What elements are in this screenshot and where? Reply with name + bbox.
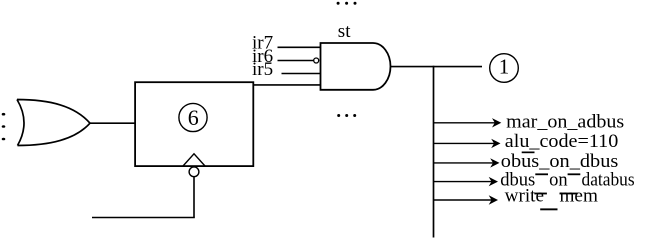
wire and-gate output to node 1 [391,66,483,68]
clock inverting bubble [189,167,199,177]
wire ir6 to inversion bubble [278,60,314,62]
svg-text:write: write [505,185,544,206]
svg-text:ir5: ir5 [252,59,273,80]
ellipsis below and-gate [337,114,356,117]
overbar on obus label [522,152,535,154]
wire or-gate output to register box [90,122,135,124]
svg-text:alu_code=110: alu_code=110 [505,131,619,152]
overbars on write_mem label [534,193,547,195]
arrow write_mem [434,199,493,201]
bus vertical wire [433,66,435,238]
register box 6 [135,82,253,166]
high separator bars of dbus label [535,173,548,175]
wire ir7 to and-gate [278,46,321,48]
arrow dbus_on_databus [434,181,493,183]
and-gate [321,43,391,90]
arrow obus_on_dbus [434,162,494,164]
svg-text:mar_on_adbus: mar_on_adbus [506,111,624,132]
svg-text:mem: mem [560,185,599,206]
wire ir5 to and-gate [282,73,321,75]
svg-text:6: 6 [188,105,199,130]
svg-text:st: st [338,21,351,42]
node 1 circle [490,54,519,83]
or-gate [17,100,90,146]
wire register box to and-gate input 4 [253,84,320,86]
inversion bubble ir6 [314,58,319,63]
arrow mar_on_adbus [434,122,496,124]
node 6 circle [179,103,207,131]
ellipsis above and-gate [337,2,357,5]
clock input triangle [183,154,205,166]
svg-text:1: 1 [499,55,510,79]
wire clock vertical [193,177,195,218]
arrow alu_code [434,142,495,144]
left inputs vertical ellipsis [2,113,6,140]
underscore of write_mem label [540,208,557,210]
wire clock horizontal [92,217,195,219]
